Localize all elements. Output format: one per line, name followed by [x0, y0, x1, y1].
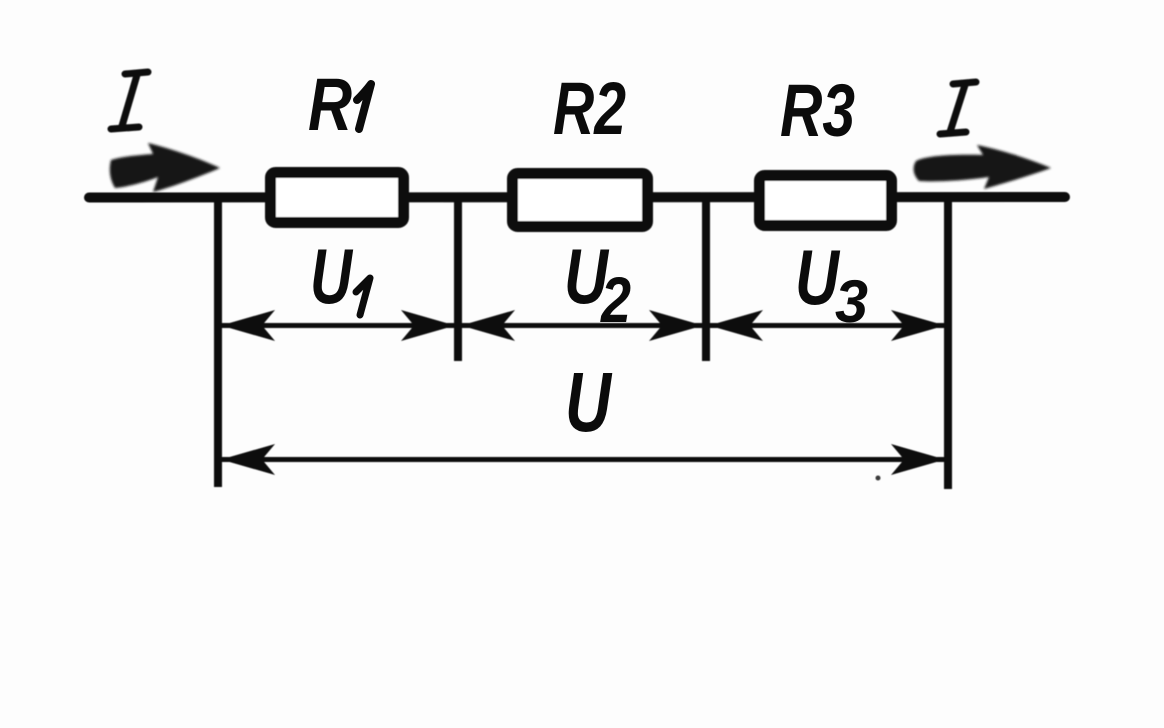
resistor R1 body: [271, 173, 404, 223]
svg-text:U: U: [565, 355, 613, 449]
svg-text:2: 2: [600, 264, 631, 336]
node tick A (left, x=218): [214, 198, 222, 487]
label I (right current): [940, 82, 976, 134]
dimension line U (overall, between ticks A and D): [221, 444, 945, 475]
resistor R3 body: [760, 176, 892, 226]
svg-text:R: R: [308, 63, 352, 146]
node tick B (between R1 and R2, x=458): [454, 198, 462, 361]
node tick C (between R2 and R3, x=706): [702, 198, 710, 361]
current arrow I (right, thick marker arrow): [914, 145, 1051, 189]
dimension line U1 (between ticks A and B): [221, 310, 455, 341]
wire: main horizontal conductor: [89, 192, 1065, 203]
svg-text:R3: R3: [780, 69, 855, 152]
svg-text:U: U: [310, 232, 353, 320]
current arrow I (left, thick marker arrow): [110, 143, 220, 192]
dimension line U3 (between ticks C and D): [709, 310, 945, 341]
label I (left current): [111, 72, 148, 129]
resistor R2 body: [513, 174, 648, 227]
svg-text:U: U: [795, 233, 840, 321]
node tick D (right, x=948): [944, 198, 952, 489]
svg-text:3: 3: [835, 268, 868, 335]
dimension line U2 (between ticks B and C): [461, 310, 703, 341]
scan speck near U arrowhead: [876, 476, 881, 481]
svg-text:R2: R2: [553, 67, 626, 150]
